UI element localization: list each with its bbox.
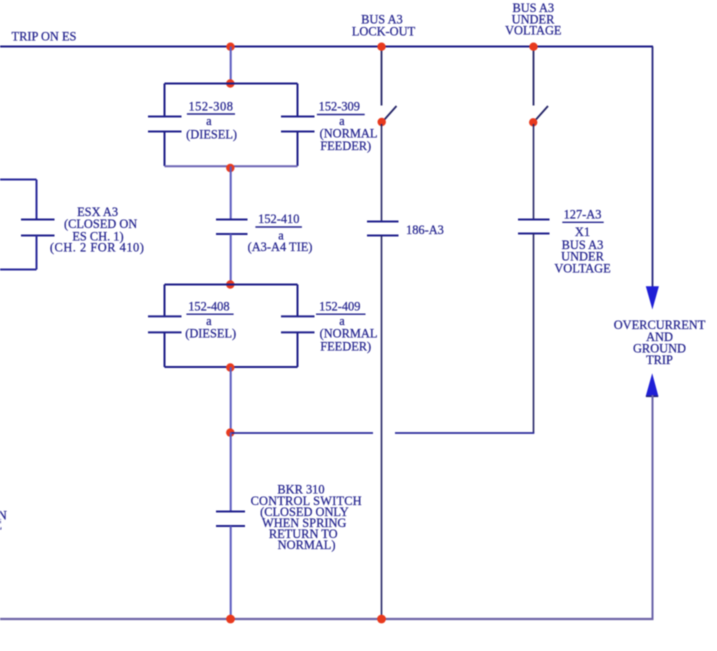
underline for 152-409 <box>316 313 366 315</box>
wire: cross junction down to BKR 310 contact <box>230 433 232 512</box>
wire: lock-out switch to 186-A3 contact <box>381 124 383 221</box>
node: cross rail junction <box>226 428 234 436</box>
wire: bottom rail <box>0 618 654 620</box>
contact 152-308 (top plate) <box>148 116 182 118</box>
svg-text:E: E <box>0 519 2 533</box>
wire: drop from top rail to lock-out switch <box>381 47 383 106</box>
parallel group 1 top rail <box>165 83 298 85</box>
contact ESX A3 (top plate) <box>21 219 55 221</box>
wire: drop from top rail to undervoltage switch <box>533 47 535 106</box>
wire: cross rail left segment (hops over 186-A3 wire) <box>231 432 374 434</box>
label 152-410 a (A3-A4 TIE) <box>248 212 313 254</box>
node: top rail junction at main column <box>226 43 234 51</box>
label BKR 310 CONTROL SWITCH <box>251 482 362 552</box>
node: group 1 top junction <box>226 79 234 87</box>
arrowhead up (overcurrent trip out) <box>646 373 659 396</box>
underline for 127-A3 <box>562 221 603 223</box>
svg-text:(A3-A4 TIE): (A3-A4 TIE) <box>248 240 313 254</box>
svg-text:LOCK-OUT: LOCK-OUT <box>352 25 416 39</box>
contact 152-409 (bottom plate) <box>281 331 315 333</box>
svg-text:VOLTAGE: VOLTAGE <box>505 24 561 38</box>
svg-text:152-410: 152-410 <box>258 212 299 226</box>
up-arrow base edge <box>646 395 658 397</box>
contact 152-410 (top plate) <box>216 219 248 221</box>
contact 152-309 (bottom plate) <box>281 131 315 133</box>
wire: ESX branch vertical upper <box>36 180 38 220</box>
label OVERCURRENT AND GROUND TRIP <box>614 318 706 367</box>
node: top rail junction at lock-out branch <box>377 43 385 51</box>
svg-text:152-409: 152-409 <box>319 300 360 314</box>
parallel group 1 bottom rail <box>165 165 298 167</box>
node: group 1 bottom junction <box>226 164 234 172</box>
svg-text:186-A3: 186-A3 <box>406 223 444 237</box>
label 127-A3 / X1 / BUS A3 UNDER VOLTAGE <box>554 207 610 275</box>
wire: group 2 right branch lower <box>297 332 299 367</box>
contact BKR 310 (top plate) <box>216 511 245 513</box>
node: top rail junction at undervoltage branch <box>529 43 537 51</box>
contact 127-A3 (top plate) <box>518 219 550 221</box>
contact BKR 310 (bottom plate) <box>216 525 245 527</box>
svg-text:127-A3: 127-A3 <box>564 207 602 221</box>
node: group 2 top junction <box>226 280 234 288</box>
label BUS A3 UNDER VOLTAGE (top) <box>505 1 561 38</box>
contact 186-A3 (top plate) <box>367 221 399 223</box>
contact 152-308 (bottom plate) <box>148 131 182 133</box>
wire: tie contact to parallel group 2 <box>230 234 232 285</box>
wire: group 1 left branch lower <box>164 132 166 167</box>
underline for 152-408 <box>186 313 233 315</box>
svg-text:FEEDER): FEEDER) <box>320 139 371 153</box>
svg-text:(DIESEL): (DIESEL) <box>186 128 237 142</box>
wire: 127-A3 contact down to cross rail <box>533 234 535 434</box>
wire: group 1 left branch upper <box>164 84 166 117</box>
wire: group 1 right branch lower <box>297 132 299 167</box>
label BUS A3 LOCK-OUT <box>352 12 416 38</box>
label 152-409 a (NORMAL FEEDER) <box>319 300 377 354</box>
arrowhead down (overcurrent trip in) <box>646 286 659 309</box>
wire: group 2 down to cross junction <box>230 367 232 433</box>
wire: top rail (TRIP ON ES bus) <box>0 46 653 48</box>
wire: BKR 310 contact down to bottom rail <box>230 526 232 619</box>
underline for 152-309 <box>317 114 365 116</box>
contact 152-408 (top plate) <box>148 315 182 317</box>
label ESX A3 (CLOSED ON ES CH. 1) (CH. 2 FOR 410) <box>50 205 144 255</box>
wire: right vertical from up-arrow to bottom rail <box>652 395 654 619</box>
svg-text:(DIESEL): (DIESEL) <box>185 326 236 340</box>
node: bottom rail junction at 186-A3 branch <box>377 615 386 624</box>
contact 152-408 (bottom plate) <box>148 331 182 333</box>
label 152-309 a (NORMAL FEEDER) <box>319 100 378 154</box>
switch blade (lock-out contact) <box>385 106 397 120</box>
node: undervoltage switch hinge <box>529 118 537 126</box>
contact 186-A3 (bottom plate) <box>367 235 399 237</box>
wire: cross rail right segment to 127-A3 branch <box>395 432 534 434</box>
node: lock-out switch hinge <box>378 118 386 126</box>
ESX A3 branch: bottom stub to left edge <box>0 269 37 271</box>
contact 152-409 (top plate) <box>281 315 315 317</box>
svg-text:TRIP: TRIP <box>646 353 673 367</box>
svg-text:a: a <box>206 114 212 128</box>
label 152-408 a (DIESEL) <box>185 300 236 341</box>
svg-text:(CH. 2 FOR 410): (CH. 2 FOR 410) <box>50 241 144 255</box>
contact 127-A3 (bottom plate) <box>518 233 550 235</box>
node: group 2 bottom junction <box>226 363 234 371</box>
ESX A3 branch: top stub from left edge <box>0 179 37 181</box>
wire: ESX branch vertical lower <box>36 236 38 270</box>
wire: 186-A3 contact down to bottom rail <box>381 236 383 620</box>
svg-text:X1: X1 <box>575 225 590 239</box>
contact 152-410 (bottom plate) <box>216 233 248 235</box>
wire: undervoltage switch to 127-A3 contact <box>533 124 535 219</box>
contact 152-309 (top plate) <box>281 116 315 118</box>
svg-text:152-408: 152-408 <box>188 300 229 314</box>
label 152-308 a (DIESEL) <box>186 100 237 142</box>
parallel group 2 top rail <box>165 284 298 286</box>
wire: main column from top rail to parallel group 1 <box>230 47 232 84</box>
wire: group 1 to tie contact 152-410 <box>230 166 232 219</box>
wire: group 2 right branch upper <box>297 285 299 317</box>
parallel group 2 bottom rail <box>165 366 298 368</box>
wire: group 2 left branch lower <box>164 332 166 367</box>
switch blade (undervoltage contact) <box>536 106 548 120</box>
svg-text:FEEDER): FEEDER) <box>320 339 371 353</box>
wire: group 2 left branch upper <box>164 285 166 317</box>
wire: right vertical from top rail to overcurrent arrow <box>652 47 654 288</box>
node: bottom rail junction at main column <box>226 615 235 624</box>
underline for 152-308 <box>187 113 235 115</box>
svg-text:152-308: 152-308 <box>188 100 233 114</box>
wire: group 1 right branch upper <box>297 84 299 117</box>
svg-text:NORMAL): NORMAL) <box>278 538 336 552</box>
svg-text:TRIP ON ES: TRIP ON ES <box>12 30 77 44</box>
svg-text:VOLTAGE: VOLTAGE <box>554 261 610 275</box>
contact ESX A3 (bottom plate) <box>21 235 55 237</box>
svg-text:152-309: 152-309 <box>319 100 360 114</box>
underline for 152-410 <box>255 226 302 228</box>
